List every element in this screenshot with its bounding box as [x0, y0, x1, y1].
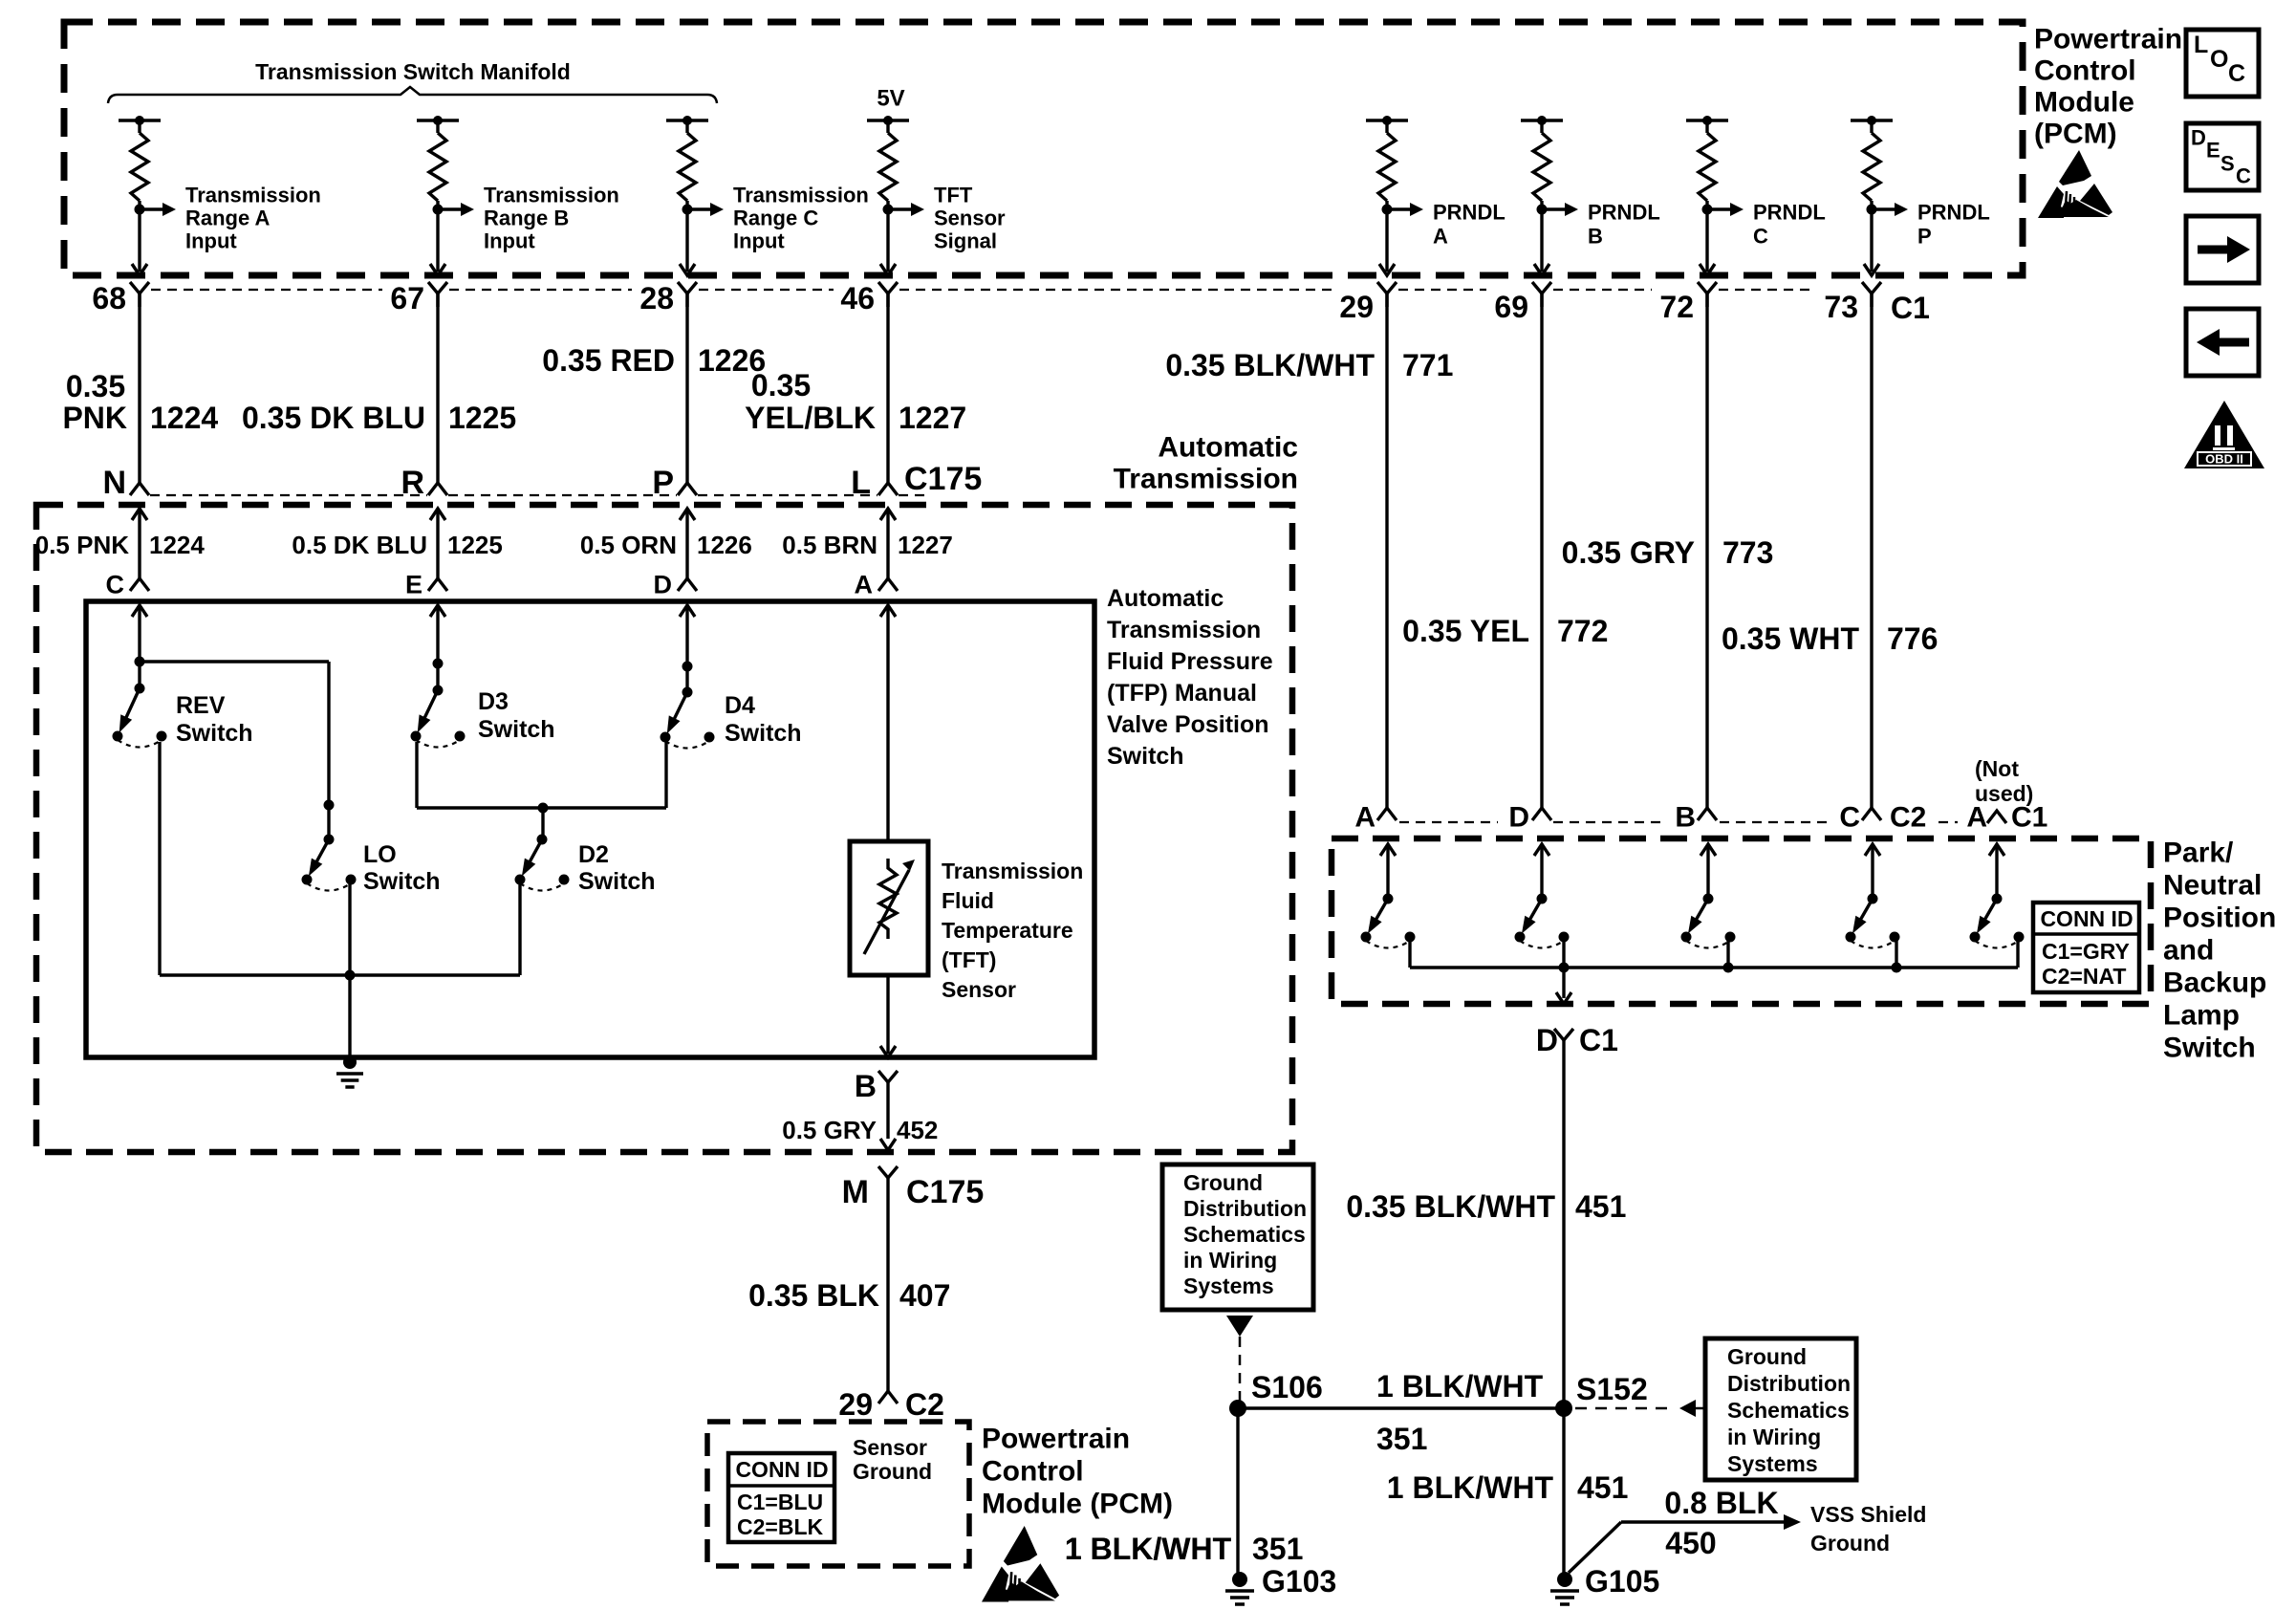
- svg-text:G105: G105: [1585, 1564, 1659, 1599]
- svg-text:0.5 BRN: 0.5 BRN: [782, 531, 877, 559]
- svg-text:Transmission: Transmission: [1114, 464, 1298, 495]
- svg-text:1 BLK/WHT: 1 BLK/WHT: [1376, 1369, 1544, 1403]
- svg-text:(TFT): (TFT): [942, 947, 996, 972]
- svg-text:1227: 1227: [898, 531, 953, 559]
- svg-text:0.35 GRY: 0.35 GRY: [1562, 535, 1695, 570]
- svg-text:Fluid Pressure: Fluid Pressure: [1107, 648, 1273, 675]
- svg-text:0.35: 0.35: [751, 368, 811, 402]
- svg-text:C2=NAT: C2=NAT: [2042, 964, 2126, 989]
- svg-text:Transmission: Transmission: [733, 184, 869, 207]
- svg-text:S: S: [2220, 152, 2235, 176]
- svg-text:Transmission: Transmission: [942, 859, 1083, 883]
- svg-text:Sensor: Sensor: [942, 977, 1016, 1002]
- svg-text:(PCM): (PCM): [2034, 119, 2117, 150]
- svg-text:776: 776: [1887, 621, 1938, 656]
- svg-text:5V: 5V: [877, 85, 904, 111]
- svg-text:Switch: Switch: [578, 868, 656, 895]
- svg-text:S106: S106: [1251, 1370, 1323, 1404]
- svg-text:Switch: Switch: [478, 716, 555, 743]
- svg-text:C175: C175: [906, 1174, 984, 1210]
- svg-text:450: 450: [1665, 1526, 1716, 1560]
- svg-text:D: D: [2191, 126, 2206, 150]
- svg-text:C: C: [1753, 225, 1768, 249]
- svg-text:Temperature: Temperature: [942, 918, 1073, 943]
- svg-text:E: E: [405, 571, 422, 599]
- svg-text:Position: Position: [2163, 903, 2276, 934]
- svg-text:Range C: Range C: [733, 207, 818, 230]
- svg-text:Fluid: Fluid: [942, 888, 994, 913]
- svg-text:0.35 YEL: 0.35 YEL: [1402, 614, 1529, 648]
- svg-text:0.5 ORN: 0.5 ORN: [580, 531, 677, 559]
- svg-text:Park/: Park/: [2163, 838, 2234, 869]
- svg-text:0.8 BLK: 0.8 BLK: [1664, 1486, 1778, 1520]
- svg-text:Ground: Ground: [1810, 1531, 1890, 1556]
- svg-text:CONN ID: CONN ID: [2040, 906, 2133, 931]
- svg-text:Schematics: Schematics: [1727, 1398, 1850, 1423]
- svg-text:and: and: [2163, 935, 2214, 967]
- svg-text:Transmission: Transmission: [1107, 617, 1261, 643]
- svg-text:A: A: [1966, 802, 1987, 834]
- svg-text:TFT: TFT: [934, 184, 973, 207]
- svg-text:Automatic: Automatic: [1158, 432, 1298, 464]
- svg-text:72: 72: [1659, 290, 1694, 324]
- svg-text:Input: Input: [185, 229, 237, 253]
- svg-text:1225: 1225: [447, 531, 503, 559]
- svg-text:S152: S152: [1576, 1372, 1648, 1406]
- svg-text:1 BLK/WHT: 1 BLK/WHT: [1387, 1470, 1554, 1505]
- svg-text:0.35 WHT: 0.35 WHT: [1722, 621, 1859, 656]
- svg-text:C: C: [2228, 60, 2245, 87]
- svg-text:Valve Position: Valve Position: [1107, 711, 1269, 738]
- svg-text:(TFP) Manual: (TFP) Manual: [1107, 680, 1257, 707]
- svg-text:Backup: Backup: [2163, 968, 2266, 999]
- svg-text:D3: D3: [478, 688, 509, 715]
- svg-text:CONN ID: CONN ID: [735, 1457, 828, 1482]
- svg-text:Input: Input: [733, 229, 785, 253]
- svg-text:OBD II: OBD II: [2205, 452, 2243, 467]
- svg-text:PRNDL: PRNDL: [1433, 201, 1505, 225]
- svg-text:0.35 BLK: 0.35 BLK: [748, 1278, 879, 1313]
- svg-text:P: P: [1917, 225, 1932, 249]
- svg-text:407: 407: [899, 1278, 950, 1313]
- svg-text:VSS Shield: VSS Shield: [1810, 1502, 1926, 1527]
- svg-text:Range B: Range B: [484, 207, 569, 230]
- svg-text:Powertrain: Powertrain: [982, 1424, 1130, 1455]
- svg-text:351: 351: [1252, 1532, 1303, 1566]
- svg-text:PRNDL: PRNDL: [1753, 201, 1826, 225]
- svg-text:YEL/BLK: YEL/BLK: [745, 401, 876, 435]
- svg-text:D2: D2: [578, 841, 609, 868]
- svg-text:REV: REV: [176, 692, 226, 719]
- svg-text:Module: Module: [2034, 87, 2134, 119]
- svg-text:773: 773: [1722, 535, 1773, 570]
- svg-text:Ground: Ground: [853, 1459, 932, 1484]
- svg-text:0.35 BLK/WHT: 0.35 BLK/WHT: [1346, 1189, 1555, 1224]
- svg-text:C: C: [2236, 164, 2251, 188]
- svg-text:28: 28: [639, 281, 674, 315]
- svg-text:C2=BLK: C2=BLK: [737, 1514, 823, 1539]
- svg-text:O: O: [2210, 46, 2228, 73]
- svg-text:Signal: Signal: [934, 229, 997, 253]
- svg-text:0.5 PNK: 0.5 PNK: [35, 531, 129, 559]
- svg-text:1 BLK/WHT: 1 BLK/WHT: [1065, 1532, 1232, 1566]
- svg-text:Systems: Systems: [1183, 1273, 1274, 1298]
- svg-text:1224: 1224: [150, 401, 218, 435]
- svg-text:C: C: [1839, 802, 1860, 834]
- svg-text:452: 452: [897, 1116, 938, 1144]
- svg-text:Systems: Systems: [1727, 1451, 1818, 1476]
- svg-text:Switch: Switch: [1107, 743, 1184, 770]
- svg-text:67: 67: [390, 281, 424, 315]
- svg-text:PRNDL: PRNDL: [1917, 201, 1990, 225]
- svg-text:Sensor: Sensor: [934, 207, 1006, 230]
- svg-text:C1=BLU: C1=BLU: [737, 1490, 823, 1514]
- svg-text:0.5 GRY: 0.5 GRY: [782, 1116, 877, 1144]
- svg-text:29: 29: [1339, 290, 1374, 324]
- svg-text:A: A: [1433, 225, 1448, 249]
- svg-text:E: E: [2206, 139, 2220, 163]
- svg-text:Powertrain: Powertrain: [2034, 24, 2182, 55]
- svg-text:M: M: [842, 1174, 869, 1210]
- svg-text:Neutral: Neutral: [2163, 870, 2262, 902]
- svg-text:Module (PCM): Module (PCM): [982, 1489, 1173, 1520]
- svg-text:D: D: [654, 571, 673, 599]
- svg-text:D: D: [1508, 802, 1529, 834]
- svg-text:Switch: Switch: [176, 720, 253, 747]
- svg-text:351: 351: [1376, 1422, 1427, 1456]
- svg-text:LO: LO: [363, 841, 397, 868]
- svg-text:68: 68: [92, 281, 126, 315]
- svg-text:Switch: Switch: [725, 720, 802, 747]
- svg-text:Distribution: Distribution: [1727, 1371, 1851, 1396]
- svg-text:772: 772: [1557, 614, 1608, 648]
- svg-text:Sensor: Sensor: [853, 1435, 927, 1460]
- svg-text:used): used): [1975, 781, 2033, 806]
- svg-text:PNK: PNK: [62, 401, 127, 435]
- svg-text:D4: D4: [725, 692, 755, 719]
- svg-text:C1: C1: [2011, 802, 2047, 834]
- svg-text:PRNDL: PRNDL: [1588, 201, 1660, 225]
- svg-text:0.35 RED: 0.35 RED: [542, 343, 675, 378]
- svg-text:C2: C2: [905, 1387, 944, 1422]
- svg-text:Transmission: Transmission: [185, 184, 321, 207]
- svg-text:451: 451: [1575, 1189, 1626, 1224]
- svg-text:C: C: [106, 571, 125, 599]
- svg-text:L: L: [2194, 32, 2208, 58]
- svg-text:Transmission Switch Manifold: Transmission Switch Manifold: [255, 59, 571, 84]
- svg-text:0.5 DK BLU: 0.5 DK BLU: [292, 531, 427, 559]
- svg-text:771: 771: [1402, 348, 1453, 382]
- svg-text:Input: Input: [484, 229, 535, 253]
- svg-text:N: N: [102, 465, 126, 501]
- svg-text:C1: C1: [1891, 291, 1930, 325]
- svg-text:46: 46: [840, 281, 875, 315]
- svg-text:Schematics: Schematics: [1183, 1222, 1306, 1247]
- svg-text:0.35 BLK/WHT: 0.35 BLK/WHT: [1165, 348, 1375, 382]
- svg-text:C1: C1: [1579, 1023, 1618, 1057]
- svg-text:451: 451: [1577, 1470, 1628, 1505]
- svg-text:A: A: [1354, 802, 1375, 834]
- svg-text:G103: G103: [1262, 1564, 1336, 1599]
- svg-text:B: B: [855, 1069, 877, 1103]
- svg-text:B: B: [1675, 802, 1696, 834]
- svg-text:Switch: Switch: [363, 868, 441, 895]
- svg-text:Range A: Range A: [185, 207, 271, 230]
- svg-text:C2: C2: [1890, 802, 1926, 834]
- svg-text:(Not: (Not: [1975, 756, 2019, 781]
- svg-text:1226: 1226: [697, 531, 752, 559]
- svg-text:Ground: Ground: [1183, 1170, 1263, 1195]
- svg-text:Automatic: Automatic: [1107, 585, 1224, 612]
- svg-text:1225: 1225: [448, 401, 516, 435]
- svg-text:69: 69: [1494, 290, 1528, 324]
- svg-text:C175: C175: [904, 461, 982, 497]
- svg-text:Distribution: Distribution: [1183, 1196, 1307, 1221]
- svg-text:0.35 DK BLU: 0.35 DK BLU: [242, 401, 425, 435]
- svg-text:1224: 1224: [149, 531, 205, 559]
- svg-text:0.35: 0.35: [66, 369, 125, 403]
- svg-text:A: A: [855, 571, 874, 599]
- svg-text:Control: Control: [982, 1456, 1084, 1488]
- svg-text:29: 29: [838, 1387, 873, 1422]
- svg-text:D: D: [1536, 1023, 1558, 1057]
- svg-text:Switch: Switch: [2163, 1033, 2256, 1064]
- svg-text:73: 73: [1824, 290, 1858, 324]
- svg-text:C1=GRY: C1=GRY: [2042, 939, 2130, 964]
- svg-text:1227: 1227: [899, 401, 966, 435]
- svg-text:Lamp: Lamp: [2163, 1000, 2240, 1032]
- svg-text:in Wiring: in Wiring: [1727, 1425, 1821, 1449]
- svg-text:Control: Control: [2034, 55, 2136, 87]
- svg-text:Ground: Ground: [1727, 1344, 1807, 1369]
- svg-text:in Wiring: in Wiring: [1183, 1248, 1277, 1273]
- svg-text:Transmission: Transmission: [484, 184, 619, 207]
- svg-text:B: B: [1588, 225, 1603, 249]
